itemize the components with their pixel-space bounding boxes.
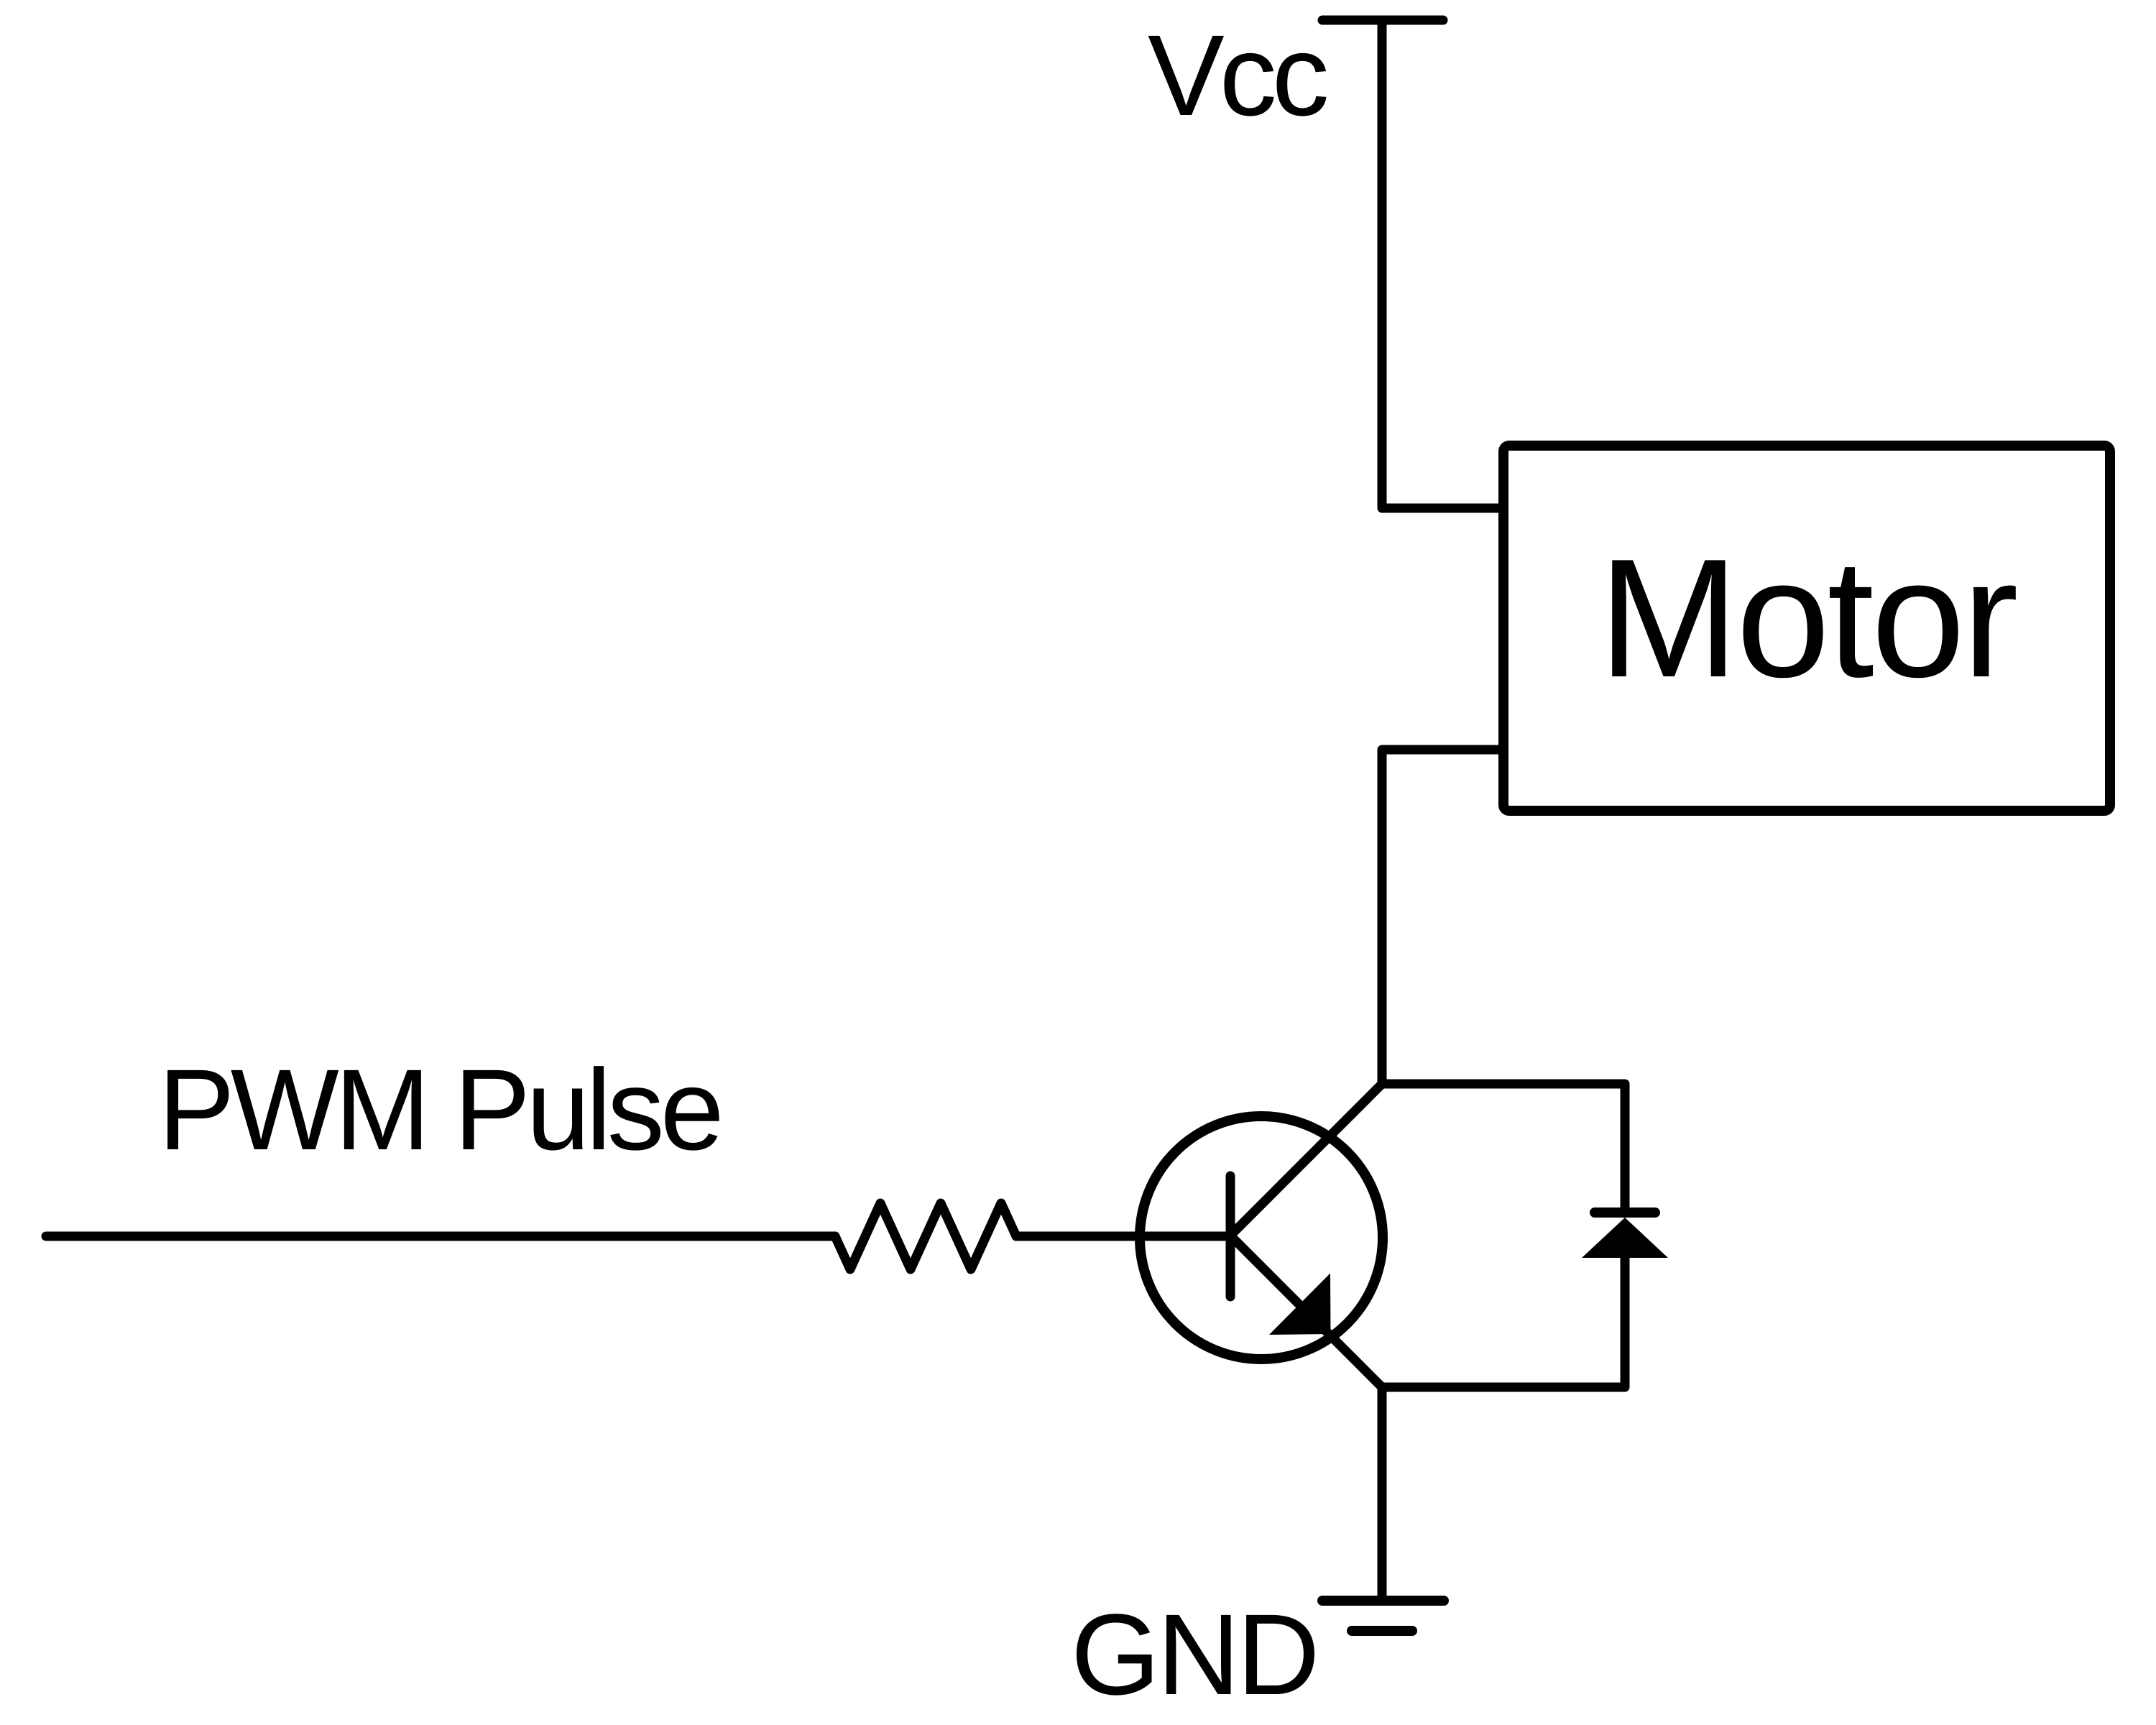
transistor Q1 collector diagonal bbox=[1230, 1084, 1382, 1236]
resistor R1 zigzag bbox=[835, 1203, 1230, 1269]
wire emitter vertex to ground bbox=[1378, 1387, 1387, 1601]
wire motor bottom pin to transistor collector vertex bbox=[1382, 750, 1503, 1084]
transistor Q1 base bar bbox=[1226, 1176, 1235, 1297]
motor box bbox=[1503, 446, 2110, 811]
PWM input wire bbox=[46, 1232, 835, 1241]
transistor Q1 emitter arrowhead bbox=[1269, 1274, 1331, 1335]
ground symbol short bar bbox=[1352, 1626, 1412, 1636]
svg-text:Vcc: Vcc bbox=[1148, 11, 1327, 139]
svg-text:GND: GND bbox=[1071, 1590, 1317, 1719]
svg-text:PWM Pulse: PWM Pulse bbox=[158, 1045, 720, 1174]
svg-text:Motor: Motor bbox=[1598, 523, 2016, 712]
transistor Q1 emitter diagonal bbox=[1230, 1236, 1382, 1387]
Vcc power rail symbol bbox=[1322, 16, 1443, 25]
wire Vcc to motor top pin bbox=[1382, 20, 1503, 508]
transistor Q1 circle bbox=[1140, 1116, 1383, 1359]
diode D1 cathode bar bbox=[1595, 1207, 1655, 1218]
ground symbol long bar bbox=[1322, 1596, 1444, 1606]
diode D1 anode triangle bbox=[1582, 1218, 1668, 1258]
wire collector vertex to diode cathode bbox=[1382, 1084, 1625, 1213]
wire diode anode to emitter vertex bbox=[1382, 1258, 1625, 1387]
